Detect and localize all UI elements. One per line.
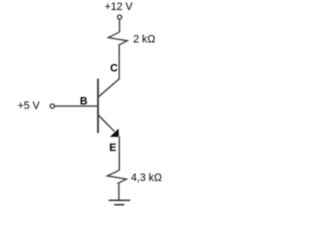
transistor Q1 emitter diagonal — [98, 115, 114, 131]
resistor R1 zigzag — [108, 32, 127, 45]
svg-text:+5 V: +5 V — [18, 100, 41, 112]
ground symbol line 2 — [114, 204, 124, 206]
svg-text:+12 V: +12 V — [105, 1, 134, 13]
svg-text:E: E — [109, 142, 116, 154]
svg-text:C: C — [110, 62, 118, 74]
resistor R2 zigzag — [107, 170, 126, 183]
terminal T1 (+12 V open circle) — [118, 15, 122, 19]
wire emitter to R2 top — [118, 136, 120, 170]
transistor Q1 base bar — [97, 79, 99, 134]
wire T1 to R1 top — [119, 19, 121, 32]
transistor Q1 emitter arrowhead — [111, 130, 118, 137]
svg-text:4,3 kΩ: 4,3 kΩ — [131, 172, 162, 184]
wire R2 bottom to ground — [118, 184, 120, 201]
terminal T2 (+5 V open circle) — [50, 104, 54, 108]
wire R1 bottom to collector diagonal — [118, 45, 120, 79]
wire base: T2 to Q1 bar — [55, 105, 98, 107]
transistor Q1 collector diagonal — [98, 79, 119, 97]
svg-text:B: B — [80, 96, 88, 108]
svg-text:2 kΩ: 2 kΩ — [133, 34, 155, 46]
ground symbol line 1 — [109, 199, 130, 201]
